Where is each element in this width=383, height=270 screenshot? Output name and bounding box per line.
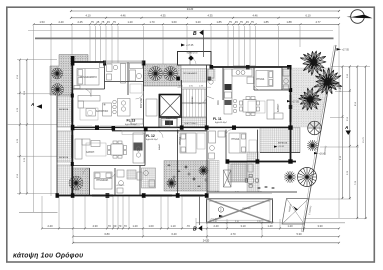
- svg-text:2.40: 2.40: [58, 20, 64, 24]
- closet fl12 strip: [209, 131, 216, 143]
- GROUP: palms right: [299, 51, 343, 111]
- svg-text:1.00: 1.00: [148, 224, 154, 228]
- svg-text:Εμβ=93.40μ²: Εμβ=93.40μ²: [215, 121, 227, 124]
- plants along bottom right patio: [257, 186, 275, 189]
- right ticks: [341, 66, 366, 220]
- bath corridor hatch: [142, 168, 156, 188]
- plot boundary slanted inner: [301, 45, 334, 232]
- door fl12 bed2: [178, 130, 184, 135]
- GROUP: columns: [56, 56, 293, 198]
- wall veranda right bottom: [260, 152, 300, 154]
- svg-text:6.80: 6.80: [104, 232, 110, 236]
- north arrow circle: [351, 10, 365, 24]
- landing upper hatch: [181, 69, 207, 83]
- terrace X diagonals: [207, 199, 273, 223]
- patio round table: [245, 174, 258, 187]
- svg-text:15.70: 15.70: [363, 136, 365, 142]
- extension lines to bottom dims: [42, 196, 304, 243]
- svg-text:1.20: 1.20: [132, 224, 138, 228]
- bottom dim labels: [47, 224, 323, 242]
- wall fl11 corridor: [222, 67, 224, 100]
- balcony left upper hatch: [57, 96, 73, 127]
- door fl11 entrance: [199, 96, 207, 104]
- wall fl12 bed2 left: [177, 130, 179, 196]
- wall fl12 bath strip right: [225, 130, 227, 162]
- svg-text:.45: .45: [234, 20, 238, 24]
- balcony BL wide hatch: [73, 168, 90, 196]
- stair treads: [182, 89, 206, 117]
- wall core left: [143, 64, 145, 128]
- columns top wall: [71, 56, 75, 66]
- svg-text:(ΤΕΝΤΑ): (ΤΕΝΤΑ): [242, 207, 251, 210]
- svg-text:ΥΠΝΟΔΩΜ.: ΥΠΝΟΔΩΜ.: [96, 179, 109, 182]
- skylight dark mark: [188, 56, 194, 61]
- spot +16.45 mid: [287, 100, 291, 102]
- svg-text:4.35: 4.35: [207, 14, 213, 18]
- wall fl12 kitchen right: [144, 130, 146, 166]
- dim chain left inner: [26, 60, 28, 194]
- svg-text:FL 13: FL 13: [127, 119, 136, 123]
- patio bottom wall: [207, 191, 297, 193]
- GROUP: left dimension chains: [20, 60, 27, 194]
- extension lines from top dims: [34, 26, 339, 219]
- dim chain right 1: [341, 67, 343, 200]
- wall fl12 bath strip left: [206, 130, 208, 196]
- door balcony fl12: [83, 168, 90, 175]
- dim chain internal above terrace: [207, 192, 272, 194]
- svg-text:B: B: [193, 227, 197, 233]
- svg-text:+17.05: +17.05: [186, 44, 194, 47]
- bed fl12: [94, 172, 112, 189]
- skylight inner divide: [189, 52, 191, 66]
- window right wall: [289, 95, 291, 122]
- svg-text:κάτοψη 1ου Ορόφου: κάτοψη 1ου Ορόφου: [13, 253, 83, 260]
- svg-text:FL 11: FL 11: [213, 117, 222, 121]
- svg-text:4.46: 4.46: [252, 14, 258, 18]
- svg-text:3.30: 3.30: [317, 224, 323, 228]
- svg-text:2.40: 2.40: [47, 224, 53, 228]
- wall core elevator left: [158, 94, 160, 127]
- dim line level3 top: [34, 23, 339, 25]
- columns right wall: [289, 88, 292, 92]
- GROUP: terrace structures: [207, 199, 309, 225]
- bath fl12 fixtures: [117, 170, 124, 177]
- svg-text:.70: .70: [186, 224, 190, 228]
- svg-text:ΔΙΑΔΡ.: ΔΙΑΔΡ.: [158, 143, 161, 150]
- svg-text:ΥΠΝΟΔΩΜΑΤΙΟ: ΥΠΝΟΔΩΜΑΤΙΟ: [80, 76, 97, 79]
- kitchen counter fl11 left: [224, 69, 232, 114]
- tv fl12: [91, 141, 100, 147]
- svg-text:ΥΠΝΟΔ.: ΥΠΝΟΔ.: [179, 136, 182, 145]
- fridge fl11: [247, 77, 254, 84]
- boundary line top thin: [28, 30, 333, 32]
- patio hatch right of bath: [247, 152, 259, 192]
- svg-text:.70: .70: [123, 224, 127, 228]
- svg-text:2.45: 2.45: [77, 20, 83, 24]
- wall top right unit: [211, 66, 291, 68]
- svg-text:4.35: 4.35: [160, 14, 166, 18]
- terrace awning inner: [209, 201, 270, 220]
- wall right exterior: [290, 66, 292, 162]
- door fl13 entrance: [136, 91, 144, 99]
- GROUP: trees: [52, 67, 322, 191]
- wardrobe bed2: [197, 133, 205, 149]
- svg-text:1.85: 1.85: [216, 20, 222, 24]
- svg-text:3.20: 3.20: [195, 20, 201, 24]
- tick marks top: [70, 10, 340, 19]
- spot +16.20 bottom: [219, 215, 223, 217]
- GROUP: right dimension chains: [342, 67, 365, 219]
- wall fl11 bath: [281, 67, 283, 90]
- svg-text:ΚΑΘΙΣΤΙΚΟ: ΚΑΘΙΣΤΙΚΟ: [96, 110, 108, 113]
- GROUP: rugs and extra furniture: [80, 84, 265, 156]
- window mid wall fl12 top: [77, 125, 92, 127]
- tree planter TC 2: [164, 67, 178, 81]
- window top wall fl11: [234, 65, 256, 67]
- section marker A right: [344, 125, 351, 135]
- kitchen island fl13: [118, 99, 131, 117]
- dim chain right 3: [356, 67, 358, 219]
- dim chain left outer: [19, 60, 21, 194]
- small fixtures corridor: [162, 120, 170, 126]
- bed fl13: [77, 69, 99, 86]
- svg-text:4.30: 4.30: [92, 224, 98, 228]
- spot +16.45 lower: [314, 152, 318, 154]
- boundary line left mid: [8, 124, 57, 126]
- svg-text:ΒΕΡΑΝΤΑ: ΒΕΡΑΝΤΑ: [59, 156, 69, 159]
- svg-text:ΠΡΟΘΑΛΑΜΟΣ: ΠΡΟΘΑΛΑΜΟΣ: [183, 72, 198, 75]
- stools fl11: [233, 99, 237, 103]
- svg-text:A: A: [30, 102, 34, 107]
- svg-text:ΒΕΡΑΝΤΑ: ΒΕΡΑΝΤΑ: [278, 142, 288, 145]
- tree circle TR: [308, 121, 322, 135]
- svg-text:.75: .75: [101, 20, 105, 24]
- plot boundary slanted: [303, 45, 336, 232]
- bed fl11: [256, 71, 273, 87]
- svg-text:1.53: 1.53: [39, 20, 45, 24]
- dim internal below block: [178, 86, 212, 88]
- svg-text:2.40: 2.40: [213, 224, 219, 228]
- spot label +17.05 top: [181, 44, 185, 47]
- wall bottom right section: [228, 161, 297, 163]
- tree patio 1: [167, 178, 177, 188]
- wardrobe fl13: [130, 63, 143, 69]
- boundary line bottom right: [196, 222, 345, 224]
- ramp X diagonals: [282, 199, 309, 225]
- GROUP: door arcs: [83, 84, 260, 178]
- garden right palm hatch: [292, 68, 333, 127]
- table fl13: [87, 110, 92, 115]
- wall mid divide upper: [72, 126, 290, 128]
- elevator X: [160, 95, 182, 118]
- svg-text:ΥΠΝΟΔ.: ΥΠΝΟΔ.: [256, 78, 265, 81]
- svg-text:1.88: 1.88: [286, 20, 292, 24]
- spot +17.05 right mid: [329, 86, 333, 88]
- wall bottom exterior: [57, 195, 208, 197]
- landing lower hatch: [182, 118, 206, 128]
- duct below elevator: [161, 119, 177, 128]
- GROUP: furniture fl11: [208, 68, 291, 120]
- svg-text:ΧΟΛ: ΧΟΛ: [218, 100, 220, 105]
- skylight block outline: [178, 52, 212, 66]
- elevator shaft: [160, 95, 182, 118]
- bath fl12 right: [231, 164, 246, 181]
- wall bedroom1 fl13: [104, 62, 106, 89]
- section marker A left: [30, 102, 42, 109]
- svg-text:4.10: 4.10: [85, 14, 91, 18]
- svg-text:ΠΛΑΤΥΣΚΑΛΟ: ΠΛΑΤΥΣΚΑΛΟ: [184, 122, 198, 125]
- svg-text:6.40: 6.40: [171, 232, 177, 236]
- GROUP: top dimension chains: [34, 11, 339, 24]
- dim line bottom detail: [42, 227, 339, 229]
- columns left wall: [71, 94, 74, 98]
- armchair fl13: [103, 103, 112, 116]
- columns right lower wall: [226, 159, 230, 163]
- columns mid wall: [71, 125, 75, 131]
- wall balcony left edge: [56, 96, 58, 196]
- left ticks: [19, 59, 28, 195]
- GROUP: window lines: [71, 61, 291, 197]
- svg-text:.70: .70: [118, 224, 122, 228]
- svg-text:1.40: 1.40: [267, 224, 273, 228]
- svg-text:ΦΩΤΑΓΩΓΟΣ: ΦΩΤΑΓΩΓΟΣ: [186, 52, 198, 55]
- wall fl11 bed/bath divide: [254, 89, 291, 91]
- door fl12 corridor arc: [156, 131, 163, 138]
- svg-text:ΚΛΙΜΑΚ.: ΚΛΙΜΑΚ.: [191, 95, 194, 104]
- left extension stubs: [17, 60, 57, 194]
- GROUP: room labels: [59, 52, 288, 187]
- svg-text:ΚΟΥΞΙΝΑ: ΚΟΥΞΙΝΑ: [140, 98, 143, 108]
- door fl12 bed3: [226, 130, 232, 135]
- balcony left mid hatch: [57, 131, 73, 162]
- tree balcony BL: [69, 176, 83, 190]
- wall fl12 top: [112, 130, 207, 132]
- top dim labels: [39, 7, 321, 24]
- svg-text:ΚΑΘΙΣΤ.: ΚΑΘΙΣΤ.: [86, 151, 95, 154]
- counter top fl12 kitchen: [122, 131, 143, 135]
- svg-text:ΔΙΑΔΡΟΜΟΣ: ΔΙΑΔΡΟΜΟΣ: [166, 117, 179, 120]
- patio corridor strip: [209, 161, 219, 192]
- balcony left lower hatch: [57, 165, 73, 196]
- window top wall fl13: [104, 60, 144, 62]
- wall fl12 corridor bath: [139, 166, 141, 196]
- GROUP: furniture fl12: [75, 131, 253, 193]
- tick marks bottom: [41, 227, 340, 243]
- svg-text:1.10: 1.10: [170, 224, 176, 228]
- dining fl13: [104, 104, 105, 105]
- dim line level2 top: [71, 17, 339, 19]
- kitchen counter fl11 top: [232, 69, 252, 76]
- bath fixtures fl13: [107, 64, 113, 72]
- palm 1: [300, 51, 326, 76]
- svg-text:.45: .45: [106, 20, 110, 24]
- rug fl12: [86, 143, 106, 156]
- wall fl11 bedroom: [253, 67, 255, 90]
- svg-text:.75: .75: [239, 20, 243, 24]
- dining fl11: [243, 100, 256, 113]
- columns bottom wall: [56, 193, 59, 198]
- patio garden hatch bottom-center: [164, 161, 209, 192]
- rug fl13: [80, 108, 98, 120]
- door fl11 bedroom: [254, 84, 260, 90]
- svg-text:+17.05: +17.05: [292, 100, 300, 103]
- svg-text:1.70: 1.70: [149, 20, 155, 24]
- GROUP: skylight block top-center: [178, 44, 212, 88]
- wall stairs left: [181, 80, 183, 127]
- svg-text:3.10: 3.10: [240, 224, 246, 228]
- svg-text:.45: .45: [96, 20, 100, 24]
- GROUP: balcony hatches: [50, 55, 333, 196]
- svg-text:.75: .75: [228, 20, 232, 24]
- svg-text:.70: .70: [107, 224, 111, 228]
- right dim labels: [340, 73, 365, 185]
- counter fl13: [131, 119, 143, 124]
- svg-text:.75: .75: [250, 20, 254, 24]
- svg-text:FL 12: FL 12: [146, 134, 155, 138]
- svg-text:6.10: 6.10: [305, 14, 311, 18]
- wall top left unit: [72, 61, 105, 63]
- section marker B bottom: [193, 196, 202, 233]
- svg-text:1.20: 1.20: [127, 20, 133, 24]
- wall fl13 bath bottom: [105, 81, 144, 83]
- rug fl11: [248, 101, 265, 113]
- bed2 fl12: [180, 133, 196, 153]
- svg-text:5.30: 5.30: [296, 232, 302, 236]
- window left wall: [70, 100, 72, 122]
- terrace awning rect: [207, 199, 273, 223]
- skylight door arc: [190, 58, 196, 64]
- wall fl12 bed3 right: [257, 130, 259, 162]
- svg-text:+17.05: +17.05: [342, 49, 350, 52]
- kitchen fl12: [133, 133, 144, 163]
- dim line bottom 24.20: [73, 242, 339, 244]
- tree patio 2: [199, 166, 209, 176]
- svg-text:.75: .75: [90, 20, 94, 24]
- veranda right +16.45 hatch: [260, 128, 300, 153]
- wc fl11 hatch: [208, 68, 216, 81]
- GROUP: bottom dimension chains: [42, 228, 339, 242]
- dining fl12: [111, 144, 123, 155]
- svg-text:ΒΕΡΑΝΤΑ: ΒΕΡΑΝΤΑ: [59, 108, 69, 111]
- svg-text:.45: .45: [245, 20, 249, 24]
- dim line bottom level2: [73, 235, 339, 237]
- bath fixtures fl11: [283, 69, 290, 76]
- svg-text:24.20: 24.20: [203, 239, 210, 243]
- stools fl13: [113, 100, 117, 104]
- right extension stubs: [304, 67, 370, 219]
- svg-text:3.60: 3.60: [171, 20, 177, 24]
- terrace circled 2: [218, 207, 223, 212]
- wc fl11 small: [208, 69, 214, 78]
- columns stair block: [176, 77, 180, 81]
- wall mid divide lower: [72, 129, 112, 131]
- patio plant scatter: [167, 164, 207, 187]
- palm 2: [314, 68, 343, 95]
- planter top-left hatch: [50, 55, 88, 96]
- wall fl13 bath: [127, 62, 129, 95]
- boundary line road top thick: [35, 37, 334, 39]
- GROUP: main walls: [57, 61, 297, 196]
- GROUP: furniture fl13: [74, 63, 143, 124]
- wardrobe bed3: [249, 140, 257, 153]
- wall fl12 bed1 left: [89, 168, 91, 196]
- svg-text:Εμβ=95.60μ²: Εμβ=95.60μ²: [125, 123, 137, 126]
- svg-text:ΥΠΝΟΔ.: ΥΠΝΟΔ.: [231, 138, 240, 141]
- nightstands fl13: [100, 63, 105, 68]
- section marker B top: [193, 30, 203, 57]
- svg-text:+17.05: +17.05: [334, 86, 342, 89]
- planter top-center hatch: [144, 64, 182, 86]
- wall left exterior: [71, 61, 73, 196]
- svg-text:24.20: 24.20: [187, 7, 194, 11]
- left dim labels: [17, 74, 26, 178]
- patio hatch small: [228, 163, 247, 183]
- bath fl11 hatch: [283, 68, 291, 90]
- wc2 fl12: [127, 170, 136, 179]
- tree circle BR: [298, 168, 317, 187]
- svg-text:1.85: 1.85: [263, 20, 269, 24]
- palm 3: [299, 88, 322, 111]
- tick marks top detail: [33, 23, 340, 25]
- svg-text:4.77: 4.77: [315, 20, 321, 24]
- GROUP: spot elevations right: [207, 48, 350, 224]
- dim line 24.20 top: [71, 10, 339, 12]
- closet fl13 hall: [130, 84, 142, 93]
- svg-text:ΚΑΘΙΣΤ.: ΚΑΘΙΣΤ.: [277, 103, 280, 112]
- dim chain right 4: [365, 67, 367, 219]
- wall fl13 bed/living: [72, 88, 104, 90]
- svg-text:.60: .60: [113, 224, 117, 228]
- svg-text:.75: .75: [112, 20, 116, 24]
- spot +17.05 right top: [337, 48, 342, 51]
- door fl13 bedroom: [84, 89, 92, 97]
- svg-text:A: A: [344, 125, 348, 130]
- tree planter TC 1: [149, 67, 163, 81]
- patio storage X-box: [224, 170, 232, 187]
- svg-text:Εμβ=96.20μ²: Εμβ=96.20μ²: [146, 138, 158, 141]
- window bottom wall: [92, 194, 113, 196]
- GROUP: stair core: [146, 89, 206, 127]
- dim chain right 2: [349, 67, 351, 200]
- door fl12 bed1: [109, 172, 115, 178]
- svg-text:4.46: 4.46: [120, 14, 126, 18]
- bed3 fl12: [229, 133, 246, 153]
- shrub right 1: [307, 140, 318, 151]
- wall fl12 kitchen: [72, 165, 145, 167]
- sofa fl11: [267, 100, 274, 119]
- tree planter TL 1: [52, 68, 63, 79]
- svg-text:B: B: [193, 31, 197, 37]
- stair mid rail: [182, 102, 206, 104]
- svg-text:+16.45: +16.45: [278, 146, 285, 148]
- sofa fl12: [75, 139, 82, 159]
- svg-text:ΛΟΥΤΡΟ: ΛΟΥΤΡΟ: [117, 185, 125, 187]
- appliances fl11: [225, 84, 232, 90]
- shrub right 2: [284, 171, 296, 183]
- boundary line left bottom: [19, 212, 58, 214]
- machine room small rect: [146, 99, 157, 116]
- svg-text:1.20: 1.20: [287, 224, 293, 228]
- north arrow needle: [350, 15, 372, 19]
- wall fl12 bed1 right: [114, 168, 116, 196]
- wall core right: [206, 65, 208, 127]
- svg-text:4.70: 4.70: [230, 232, 236, 236]
- sofa fl13: [78, 96, 100, 102]
- ramp quad with X: [282, 199, 309, 225]
- tree planter TL 2: [52, 84, 64, 96]
